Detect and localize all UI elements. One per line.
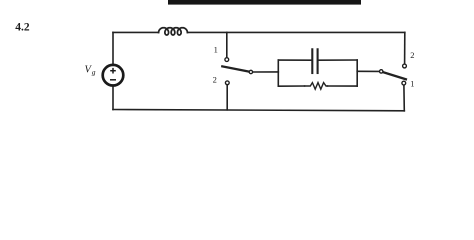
switch SW2 contact 2 circle xyxy=(403,64,407,68)
black header bar xyxy=(168,0,361,5)
wire: top horizontal from inductor to right corner xyxy=(187,31,404,33)
wire: left column bottom, from source to bottom wire xyxy=(112,86,114,109)
svg-text:2: 2 xyxy=(410,50,414,60)
voltage source minus sign xyxy=(110,79,116,81)
wire: bottom branch right segment from resistor xyxy=(328,85,358,87)
wire: right column down to switch contact 2 xyxy=(404,32,406,63)
switch SW2 arm (right) xyxy=(383,72,406,79)
node: RC box right vertical xyxy=(356,60,358,86)
wire: left switch pivot to RC box xyxy=(253,71,279,73)
wire: left switch contact 2 down to bottom wire xyxy=(226,85,228,110)
wire: right column from switch contact 1 down to bottom wire xyxy=(403,85,405,111)
switch SW1 contact 1 circle xyxy=(225,58,229,62)
wire: RC box to right switch pivot xyxy=(357,70,379,72)
wire: top branch left segment to capacitor xyxy=(278,59,311,61)
inductor L1 xyxy=(159,28,188,35)
wire: top branch right segment from capacitor xyxy=(319,59,358,61)
voltage source plus sign xyxy=(110,68,116,74)
switch SW1 arm (left) xyxy=(222,66,249,71)
svg-text:g: g xyxy=(92,68,96,77)
svg-text:2: 2 xyxy=(213,74,217,84)
wire: bottom horizontal xyxy=(113,110,404,111)
svg-text:1: 1 xyxy=(214,44,218,54)
switch SW2 pivot circle xyxy=(380,70,383,73)
switch SW2 contact 1 circle xyxy=(402,81,406,85)
svg-text:4.2: 4.2 xyxy=(15,22,30,34)
node: RC box left vertical xyxy=(277,60,279,86)
switch SW1 pivot circle xyxy=(249,70,252,73)
capacitor C1 plate right xyxy=(317,49,319,73)
wire: top horizontal from left corner to inductor xyxy=(113,31,159,33)
wire: left column top, from top wire down to source xyxy=(112,32,114,64)
voltage source Vg circle xyxy=(103,65,124,86)
svg-text:1: 1 xyxy=(410,78,414,88)
wire: left switch drop from top wire to contact 1 xyxy=(226,32,228,57)
wire: bottom branch left segment to resistor xyxy=(278,85,304,87)
capacitor C1 plate left xyxy=(311,49,313,73)
resistor R1 zigzag xyxy=(305,83,328,90)
switch SW1 contact 2 circle xyxy=(225,81,229,85)
